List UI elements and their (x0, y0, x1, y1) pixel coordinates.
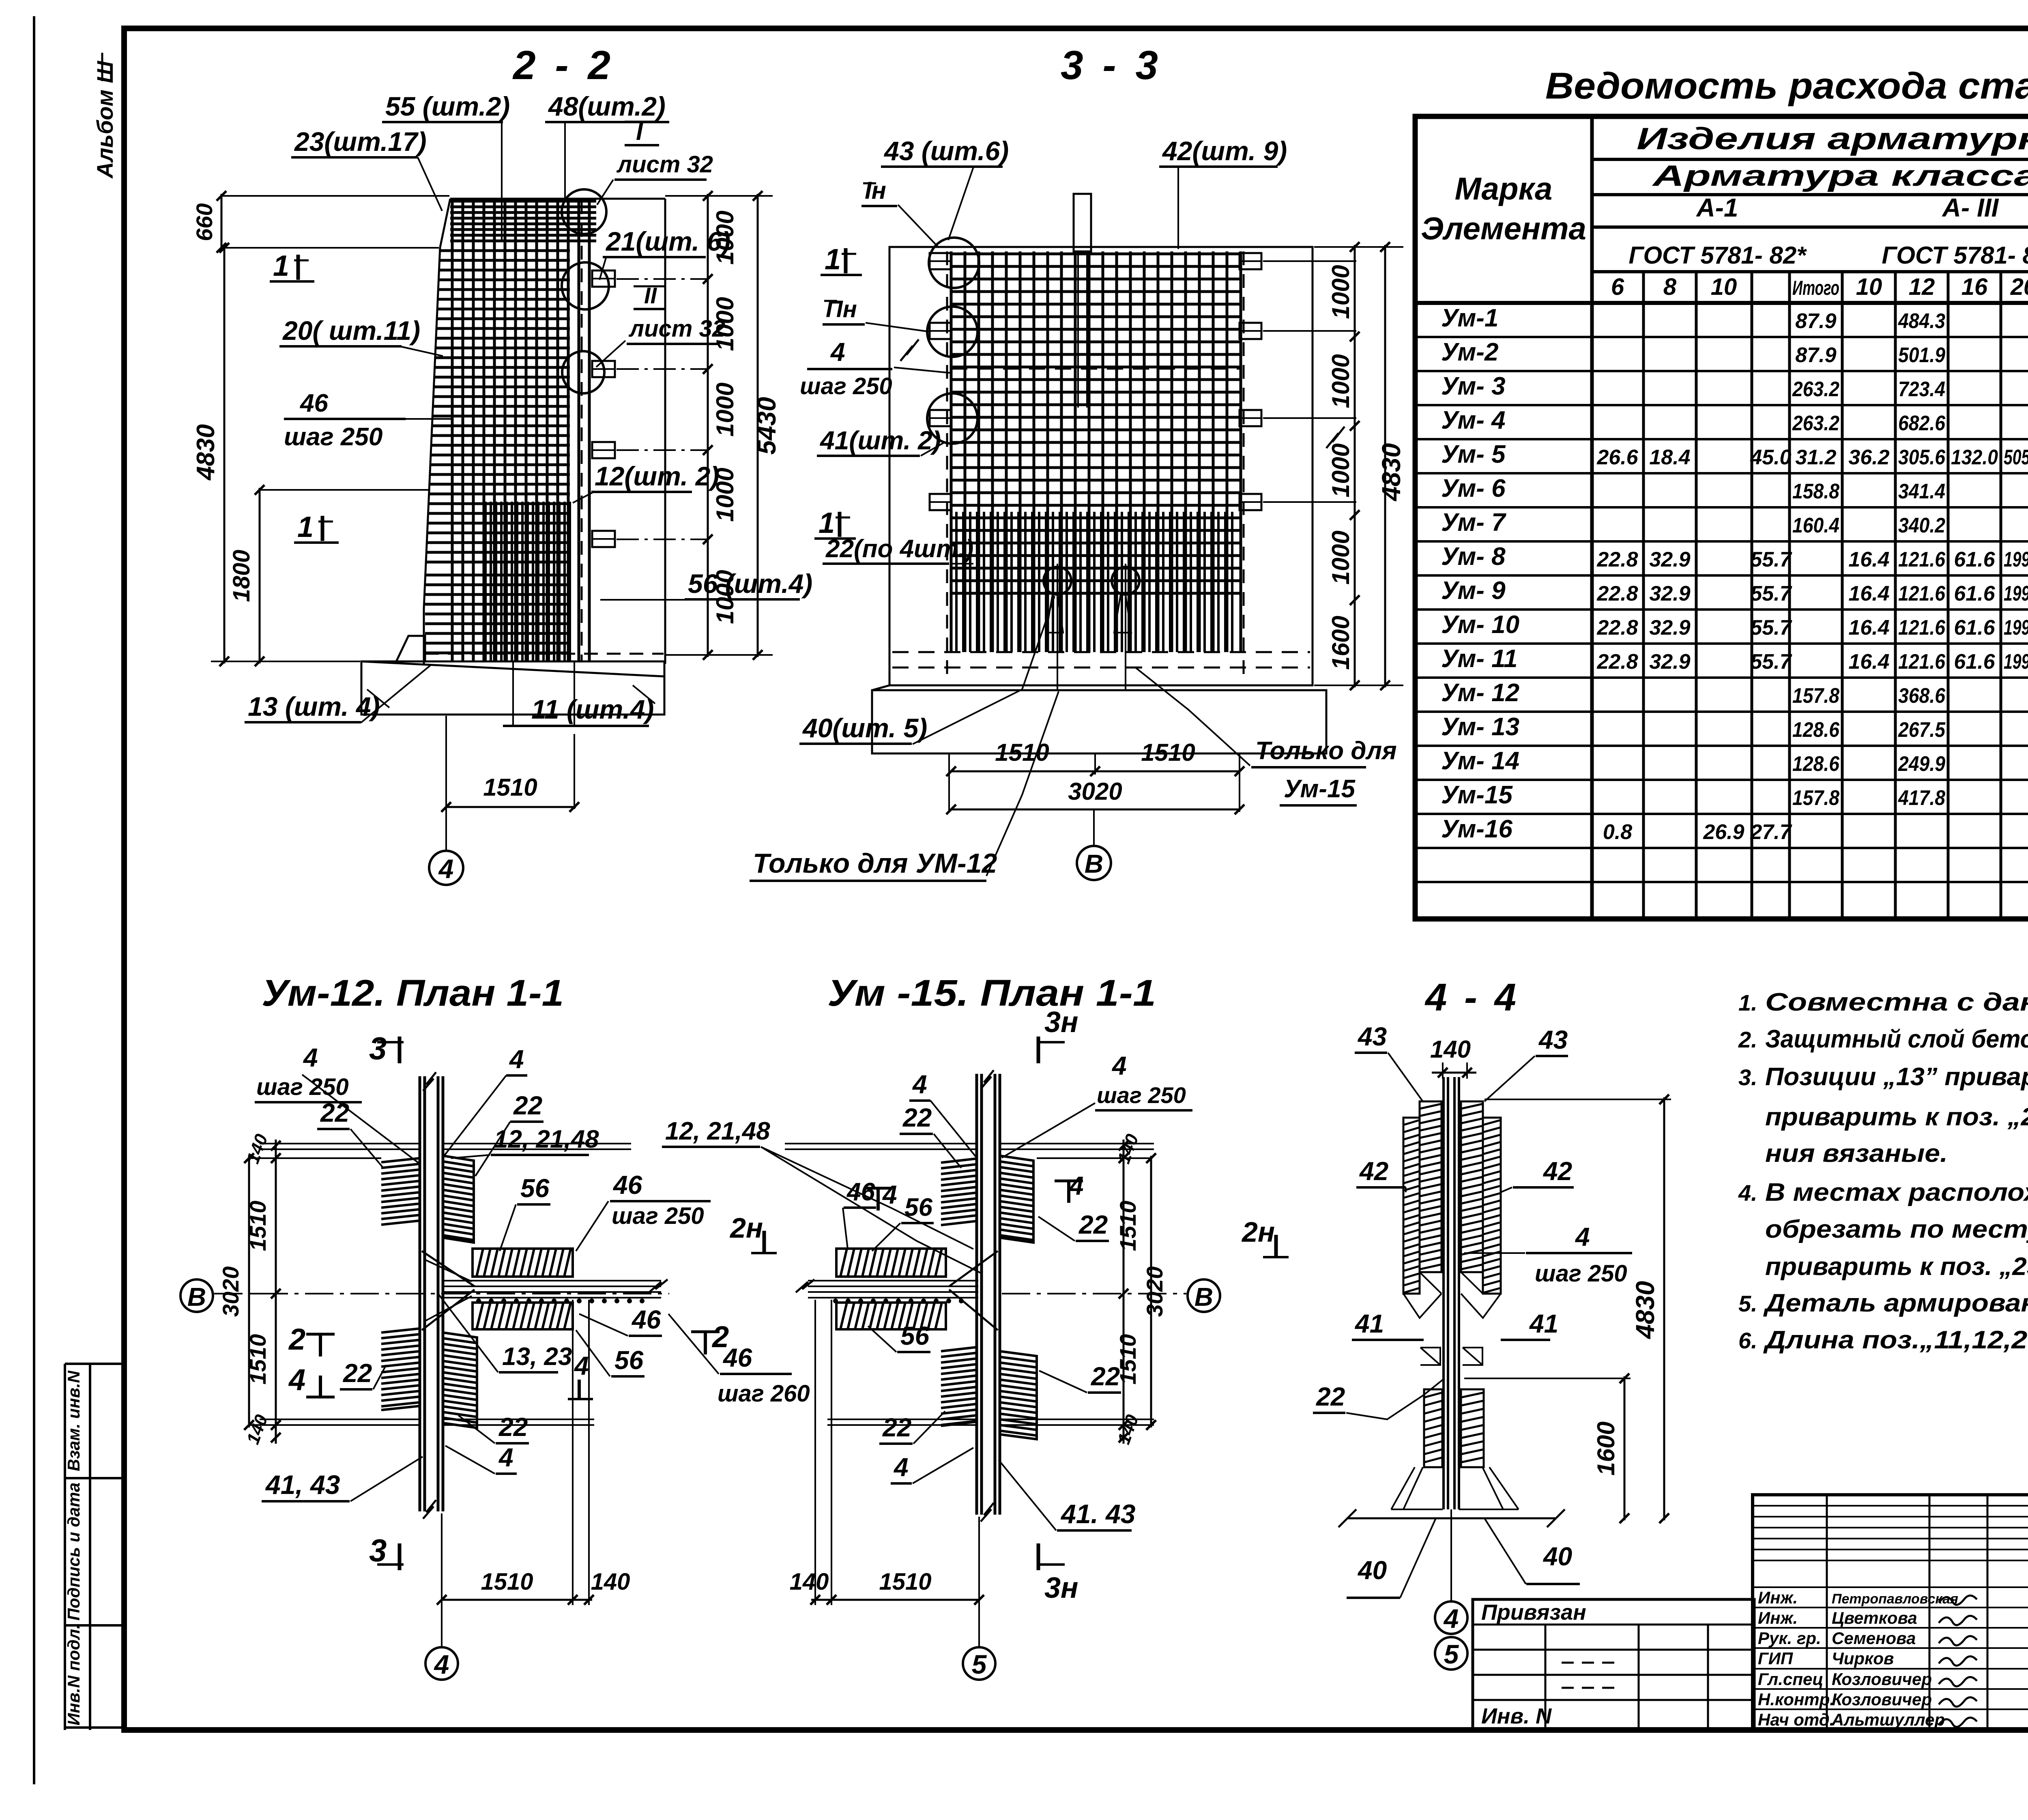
svg-text:Ум-12. План 1-1: Ум-12. План 1-1 (262, 972, 564, 1014)
svg-text:22: 22 (343, 1359, 372, 1388)
svg-text:3н: 3н (1044, 1006, 1078, 1039)
svg-text:4: 4 (830, 337, 845, 367)
svg-text:368.6: 368.6 (1898, 684, 1946, 708)
svg-text:3: 3 (369, 1532, 387, 1568)
svg-text:1510: 1510 (481, 1569, 533, 1595)
svg-text:140: 140 (591, 1569, 630, 1595)
svg-text:5.: 5. (1738, 1291, 1757, 1316)
svg-text:10: 10 (1711, 274, 1737, 300)
svg-text:Элемента: Элемента (1421, 210, 1586, 246)
svg-text:4830: 4830 (1631, 1281, 1660, 1339)
svg-text:263.2: 263.2 (1792, 378, 1839, 401)
svg-text:шаг 250: шаг 250 (256, 1074, 349, 1100)
svg-text:4 - 4: 4 - 4 (1424, 976, 1519, 1019)
svg-text:4: 4 (1111, 1051, 1127, 1080)
svg-text:шаг 260: шаг 260 (718, 1380, 810, 1407)
svg-text:22: 22 (320, 1098, 349, 1127)
svg-text:87.9: 87.9 (1795, 343, 1836, 367)
svg-text:Совместна с данным см. л. л: Совместна с данным см. л. л. КЖ-24,25,28… (1765, 988, 2028, 1016)
svg-text:2н: 2н (729, 1212, 763, 1244)
svg-text:1.: 1. (1738, 990, 1757, 1015)
svg-text:3 - 3: 3 - 3 (1061, 43, 1162, 88)
svg-text:3020: 3020 (1142, 1266, 1167, 1317)
svg-text:20( шт.11): 20( шт.11) (282, 315, 420, 346)
svg-text:3020: 3020 (1068, 778, 1122, 805)
svg-text:4: 4 (509, 1045, 524, 1074)
svg-text:87.9: 87.9 (1795, 309, 1836, 333)
svg-text:32.9: 32.9 (1649, 616, 1690, 640)
svg-text:43: 43 (1538, 1025, 1568, 1054)
svg-text:199.6: 199.6 (2004, 582, 2028, 605)
svg-text:61.6: 61.6 (1954, 582, 1995, 605)
svg-text:61.6: 61.6 (1954, 548, 1995, 571)
svg-text:Козловичер: Козловичер (1832, 1670, 1932, 1689)
svg-text:Подпись и дата: Подпись и дата (64, 1483, 83, 1620)
svg-text:2: 2 (288, 1322, 305, 1356)
svg-text:5430: 5430 (752, 397, 781, 455)
svg-text:121.6: 121.6 (1898, 616, 1946, 640)
svg-text:4: 4 (1575, 1222, 1590, 1251)
svg-text:ГИП: ГИП (1758, 1649, 1793, 1668)
svg-text:А-1: А-1 (1695, 193, 1738, 222)
svg-text:шаг 250: шаг 250 (612, 1203, 704, 1229)
svg-text:2.: 2. (1738, 1027, 1757, 1052)
svg-text:140: 140 (790, 1569, 829, 1595)
svg-text:128.6: 128.6 (1792, 752, 1840, 776)
svg-text:41, 43: 41, 43 (265, 1470, 340, 1500)
svg-text:55.7: 55.7 (1750, 650, 1792, 674)
svg-text:4: 4 (438, 854, 454, 884)
svg-text:шаг 250: шаг 250 (1097, 1082, 1186, 1108)
svg-text:Семенова: Семенова (1832, 1629, 1916, 1648)
svg-text:121.6: 121.6 (1898, 548, 1946, 571)
svg-text:приварить к поз. „25”.: приварить к поз. „25”. (1765, 1253, 2028, 1281)
svg-text:56: 56 (900, 1321, 930, 1350)
svg-text:Чирков: Чирков (1832, 1649, 1894, 1668)
svg-text:Ум-15: Ум-15 (1441, 781, 1513, 809)
svg-text:Ум- 10: Ум- 10 (1441, 611, 1519, 639)
svg-text:ГОСТ 5781- 82*: ГОСТ 5781- 82* (1882, 242, 2028, 269)
svg-text:140: 140 (1430, 1036, 1471, 1063)
svg-text:Альтшуллер: Альтшуллер (1831, 1710, 1945, 1729)
svg-text:ния вязаные.: ния вязаные. (1765, 1140, 1948, 1168)
svg-text:В: В (1194, 1282, 1213, 1311)
svg-text:А- III: А- III (1942, 193, 1999, 222)
svg-text:3: 3 (369, 1030, 387, 1066)
svg-text:46: 46 (299, 389, 328, 417)
svg-text:199.6: 199.6 (2004, 650, 2028, 674)
svg-text:Альбом Ш: Альбом Ш (92, 60, 118, 179)
svg-text:42: 42 (1542, 1157, 1572, 1186)
svg-text:55.7: 55.7 (1750, 616, 1792, 640)
svg-text:1600: 1600 (1592, 1421, 1620, 1475)
svg-text:121.6: 121.6 (1898, 650, 1946, 674)
svg-text:41: 41 (1529, 1309, 1558, 1338)
svg-text:2н: 2н (1241, 1216, 1275, 1248)
svg-text:Цветкова: Цветкова (1832, 1608, 1917, 1627)
svg-text:45.0: 45.0 (1750, 446, 1791, 469)
svg-text:501.9: 501.9 (1898, 343, 1945, 367)
svg-text:Взам. инв.N: Взам. инв.N (64, 1370, 83, 1471)
svg-text:1510: 1510 (483, 774, 537, 801)
svg-text:22.8: 22.8 (1596, 650, 1638, 674)
svg-text:32.9: 32.9 (1649, 650, 1690, 674)
svg-text:41(шт. 2): 41(шт. 2) (819, 426, 941, 455)
svg-text:22: 22 (513, 1091, 542, 1120)
svg-text:12: 12 (1909, 274, 1935, 300)
svg-text:3н: 3н (1044, 1572, 1078, 1604)
svg-text:56: 56 (520, 1174, 550, 1203)
svg-text:1600: 1600 (1327, 616, 1354, 670)
svg-text:132.0: 132.0 (1951, 446, 1998, 469)
svg-text:4830: 4830 (1377, 443, 1406, 502)
svg-text:61.6: 61.6 (1954, 616, 1995, 640)
svg-text:157.8: 157.8 (1792, 786, 1839, 810)
svg-text:4: 4 (912, 1070, 927, 1099)
svg-text:1: 1 (825, 243, 841, 276)
svg-text:16.4: 16.4 (1848, 616, 1889, 640)
svg-text:305.6: 305.6 (1898, 446, 1946, 469)
svg-text:4: 4 (1443, 1603, 1459, 1633)
svg-text:10: 10 (1856, 274, 1882, 300)
svg-text:5: 5 (1444, 1639, 1459, 1669)
svg-text:Ум-15: Ум-15 (1284, 775, 1356, 803)
svg-text:22: 22 (882, 1413, 911, 1442)
svg-text:1510: 1510 (879, 1569, 931, 1595)
svg-text:Деталь армирования отверстий: Деталь армирования отверстий см. л. КЖ-3… (1763, 1289, 2028, 1317)
svg-text:27.7: 27.7 (1750, 820, 1792, 844)
svg-text:Ум- 8: Ум- 8 (1441, 543, 1506, 571)
svg-text:лист 32: лист 32 (628, 315, 725, 342)
svg-text:Ум-1: Ум-1 (1441, 304, 1498, 332)
svg-text:12, 21,48: 12, 21,48 (665, 1117, 770, 1145)
svg-text:Ум- 12: Ум- 12 (1441, 679, 1519, 707)
svg-text:Петропавловская: Петропавловская (1832, 1591, 1958, 1607)
svg-text:1000: 1000 (1327, 443, 1354, 497)
svg-text:22: 22 (498, 1412, 528, 1442)
svg-text:4: 4 (882, 1180, 897, 1209)
svg-text:46: 46 (846, 1178, 875, 1206)
svg-text:Рук. гр.: Рук. гр. (1758, 1629, 1821, 1648)
svg-text:Ум- 5: Ум- 5 (1441, 440, 1506, 468)
svg-text:Привязан: Привязан (1481, 1600, 1586, 1625)
svg-text:40(шт. 5): 40(шт. 5) (802, 713, 927, 743)
svg-text:20: 20 (2010, 274, 2028, 300)
svg-text:16.4: 16.4 (1848, 548, 1889, 571)
svg-text:Гл.спец: Гл.спец (1758, 1670, 1823, 1689)
svg-text:21(шт. 6): 21(шт. 6) (605, 226, 730, 256)
svg-text:48(шт.2): 48(шт.2) (548, 91, 666, 121)
svg-text:Ум -15. План 1-1: Ум -15. План 1-1 (827, 972, 1156, 1014)
svg-text:Ум-2: Ум-2 (1441, 338, 1498, 366)
svg-text:Марка: Марка (1455, 171, 1553, 206)
svg-text:46: 46 (612, 1170, 642, 1200)
svg-text:199.6: 199.6 (2004, 616, 2028, 640)
svg-text:32.9: 32.9 (1649, 548, 1690, 571)
svg-text:43 (шт.6): 43 (шт.6) (883, 136, 1009, 166)
svg-text:3.: 3. (1738, 1065, 1757, 1090)
svg-text:723.4: 723.4 (1898, 378, 1945, 401)
svg-text:3020: 3020 (218, 1266, 243, 1317)
svg-text:8: 8 (1663, 274, 1677, 300)
svg-text:55 (шт.2): 55 (шт.2) (385, 91, 510, 121)
svg-text:263.2: 263.2 (1792, 412, 1839, 435)
svg-text:26.9: 26.9 (1703, 820, 1744, 844)
svg-text:267.5: 267.5 (1898, 718, 1946, 742)
svg-text:Ум- 7: Ум- 7 (1441, 509, 1506, 537)
svg-text:56: 56 (614, 1346, 644, 1375)
svg-text:6.: 6. (1738, 1328, 1757, 1353)
svg-text:Инж.: Инж. (1758, 1608, 1798, 1627)
svg-text:484.3: 484.3 (1898, 309, 1945, 333)
svg-text:1000: 1000 (1327, 265, 1354, 319)
svg-text:16: 16 (1961, 274, 1988, 300)
svg-text:40: 40 (1542, 1542, 1572, 1571)
svg-text:4: 4 (288, 1363, 305, 1397)
svg-text:В: В (187, 1282, 206, 1311)
svg-text:660: 660 (191, 203, 217, 241)
svg-text:4: 4 (893, 1453, 909, 1482)
svg-text:Инж.: Инж. (1758, 1588, 1798, 1607)
svg-text:22.8: 22.8 (1596, 616, 1638, 640)
svg-text:26.6: 26.6 (1596, 446, 1638, 469)
svg-text:18.4: 18.4 (1649, 446, 1690, 469)
svg-text:4.: 4. (1738, 1180, 1757, 1206)
svg-text:1: 1 (297, 511, 314, 543)
svg-text:12, 21,48: 12, 21,48 (494, 1125, 599, 1153)
svg-text:шаг 250: шаг 250 (284, 423, 382, 451)
svg-text:4: 4 (434, 1649, 449, 1679)
svg-text:шаг 250: шаг 250 (1535, 1260, 1627, 1287)
svg-text:1: 1 (273, 250, 289, 282)
svg-text:1510: 1510 (1141, 739, 1195, 766)
svg-text:Ум- 13: Ум- 13 (1441, 713, 1519, 741)
svg-text:157.8: 157.8 (1792, 684, 1839, 708)
svg-text:Изделия арматурные: Изделия арматурные (1637, 122, 2028, 156)
svg-text:4: 4 (498, 1443, 513, 1472)
svg-text:46: 46 (631, 1305, 661, 1334)
svg-text:2 - 2: 2 - 2 (512, 43, 614, 88)
svg-text:6: 6 (1611, 274, 1624, 300)
svg-text:Только для УМ-12: Только для УМ-12 (753, 848, 997, 879)
svg-text:22: 22 (1078, 1210, 1108, 1239)
svg-text:341.4: 341.4 (1898, 480, 1945, 503)
svg-text:Инв. N: Инв. N (1481, 1704, 1552, 1728)
svg-text:56 (шт.4): 56 (шт.4) (688, 569, 812, 599)
svg-text:1000: 1000 (1327, 354, 1354, 408)
svg-text:13, 23: 13, 23 (502, 1343, 572, 1371)
svg-text:1000: 1000 (711, 382, 739, 436)
svg-text:41: 41 (1354, 1309, 1384, 1338)
svg-text:шаг 250: шаг 250 (800, 373, 892, 399)
svg-text:22: 22 (1316, 1382, 1345, 1411)
svg-text:1510: 1510 (1115, 1201, 1141, 1251)
svg-text:4: 4 (1068, 1171, 1084, 1200)
svg-text:31.2: 31.2 (1795, 446, 1836, 469)
svg-text:обрезать по месту и концы: обрезать по месту и концы обрезанной арм… (1765, 1215, 2028, 1243)
svg-text:42(шт. 9): 42(шт. 9) (1162, 136, 1287, 166)
svg-text:160.4: 160.4 (1792, 514, 1839, 537)
svg-text:1: 1 (819, 507, 835, 539)
svg-text:43: 43 (1357, 1022, 1387, 1051)
svg-text:128.6: 128.6 (1792, 718, 1840, 742)
svg-text:Ум-16: Ум-16 (1441, 815, 1512, 843)
svg-text:121.6: 121.6 (1898, 582, 1946, 605)
svg-text:Ум- 9: Ум- 9 (1441, 577, 1506, 605)
svg-text:Ум- 14: Ум- 14 (1441, 747, 1519, 775)
svg-text:46: 46 (722, 1343, 752, 1372)
svg-text:42: 42 (1359, 1157, 1388, 1186)
svg-text:Ум- 11: Ум- 11 (1441, 645, 1518, 673)
svg-text:4: 4 (574, 1351, 589, 1380)
svg-text:5: 5 (972, 1649, 987, 1679)
svg-text:Козловичер: Козловичер (1832, 1690, 1932, 1709)
svg-text:158.8: 158.8 (1792, 480, 1839, 503)
svg-text:лист 32: лист 32 (616, 151, 713, 178)
svg-text:22.8: 22.8 (1596, 582, 1638, 605)
svg-text:41. 43: 41. 43 (1060, 1499, 1136, 1529)
svg-text:1800: 1800 (228, 549, 255, 602)
svg-text:32.9: 32.9 (1649, 582, 1690, 605)
svg-text:Инв.N подл.: Инв.N подл. (64, 1624, 83, 1726)
svg-text:22(по 4шт.): 22(по 4шт.) (825, 535, 973, 563)
svg-text:4: 4 (303, 1043, 318, 1072)
svg-text:Ум- 6: Ум- 6 (1441, 474, 1506, 502)
svg-text:13 (шт. 4): 13 (шт. 4) (248, 691, 380, 721)
svg-text:Позиции „13” приварить к поз.„: Позиции „13” приварить к поз.„ 11,12,40,… (1765, 1063, 2028, 1091)
svg-text:В местах расположения поз. „: В местах расположения поз. „25” в Ум-15 … (1765, 1178, 2028, 1206)
svg-text:Длина поз.„11,12,20,21” уто: Длина поз.„11,12,20,21” уточняется по ме… (1763, 1326, 2028, 1354)
svg-text:Итого: Итого (1792, 277, 1839, 299)
svg-text:Ум- 3: Ум- 3 (1441, 372, 1506, 400)
svg-text:23(шт.17): 23(шт.17) (294, 127, 427, 157)
svg-text:приварить к поз. „20,21,42,43: приварить к поз. „20,21,42,43,” остальны… (1765, 1103, 2028, 1131)
svg-text:199.6: 199.6 (2004, 548, 2028, 571)
svg-text:0.8: 0.8 (1603, 820, 1632, 844)
svg-text:56: 56 (904, 1193, 932, 1221)
svg-text:Арматура класса: Арматура класса (1652, 160, 2028, 192)
svg-text:16.4: 16.4 (1848, 582, 1889, 605)
svg-text:61.6: 61.6 (1954, 650, 1995, 674)
svg-text:417.8: 417.8 (1898, 786, 1945, 810)
svg-text:12(шт. 2): 12(шт. 2) (595, 461, 719, 491)
svg-text:4830: 4830 (192, 424, 220, 481)
svg-text:55.7: 55.7 (1750, 582, 1792, 605)
svg-text:22: 22 (902, 1103, 932, 1132)
svg-text:505.0: 505.0 (2004, 446, 2028, 469)
svg-text:ГОСТ 5781- 82*: ГОСТ 5781- 82* (1628, 242, 1807, 269)
svg-text:682.6: 682.6 (1898, 412, 1946, 435)
svg-text:36.2: 36.2 (1848, 446, 1889, 469)
svg-text:16.4: 16.4 (1848, 650, 1889, 674)
svg-text:22.8: 22.8 (1596, 548, 1638, 571)
svg-text:Ведомость расхода стали на эл: Ведомость расхода стали на элемент, кг (1545, 65, 2028, 107)
svg-text:40: 40 (1357, 1556, 1387, 1585)
svg-text:В: В (1085, 849, 1103, 878)
svg-text:Н.контр.: Н.контр. (1758, 1690, 1835, 1709)
svg-text:249.9: 249.9 (1898, 752, 1945, 776)
svg-text:Защитный слой бетона - 20 мм: Защитный слой бетона - 20 мм. (1765, 1025, 2028, 1053)
svg-text:Ум- 4: Ум- 4 (1441, 406, 1506, 434)
svg-text:11 (шт.4): 11 (шт.4) (531, 694, 654, 724)
svg-text:55.7: 55.7 (1750, 548, 1792, 571)
svg-text:Только для: Только для (1255, 737, 1397, 765)
svg-text:22: 22 (1091, 1362, 1120, 1391)
svg-text:Нач отд.: Нач отд. (1758, 1710, 1834, 1729)
svg-text:1000: 1000 (1327, 530, 1354, 584)
svg-text:340.2: 340.2 (1898, 514, 1945, 537)
svg-text:Iн: Iн (865, 177, 886, 204)
